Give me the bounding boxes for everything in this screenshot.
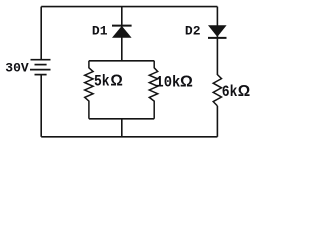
wire left vertical bottom xyxy=(40,75,42,137)
svg-text:Ω: Ω xyxy=(180,73,193,90)
battery V1 30V xyxy=(30,60,51,75)
wire left vertical top xyxy=(40,7,42,60)
svg-text:D2: D2 xyxy=(185,24,201,39)
svg-text:Ω: Ω xyxy=(238,83,250,100)
diode D1 triangle xyxy=(112,26,132,38)
node box top wire xyxy=(89,60,154,62)
wire D1 branch vertical xyxy=(121,7,123,61)
wire D2 branch vertical xyxy=(216,7,218,75)
svg-text:D1: D1 xyxy=(92,24,108,39)
svg-text:10k: 10k xyxy=(155,75,180,92)
diode D2 cathode bar xyxy=(208,37,227,39)
svg-text:Ω: Ω xyxy=(110,73,122,90)
wire bottom rail xyxy=(41,136,217,138)
diode D1 cathode bar xyxy=(112,25,132,27)
wire below 6k xyxy=(216,106,218,137)
resistor R1 5k zigzag xyxy=(85,61,93,119)
diode D2 triangle xyxy=(208,25,227,37)
resistor R2 10k zigzag xyxy=(149,61,157,119)
wire top rail xyxy=(41,6,217,8)
node box bottom wire xyxy=(89,118,154,120)
svg-text:30V: 30V xyxy=(5,60,29,75)
resistor R3 6k zigzag xyxy=(213,75,221,106)
svg-text:5k: 5k xyxy=(94,74,110,91)
svg-text:6k: 6k xyxy=(222,84,238,101)
wire center stub bottom xyxy=(121,119,123,137)
